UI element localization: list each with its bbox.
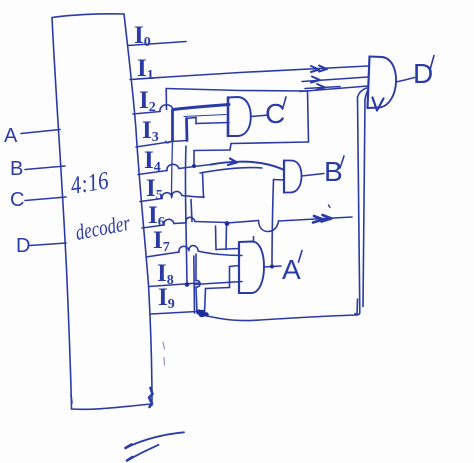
svg-text:C: C — [265, 98, 285, 129]
svg-text:D: D — [413, 58, 433, 89]
svg-text:B: B — [324, 156, 343, 187]
svg-text:C: C — [10, 189, 24, 211]
svg-text:B: B — [10, 158, 23, 180]
svg-text:A: A — [282, 254, 301, 285]
svg-text:D: D — [16, 235, 30, 257]
svg-text:A: A — [4, 125, 18, 147]
